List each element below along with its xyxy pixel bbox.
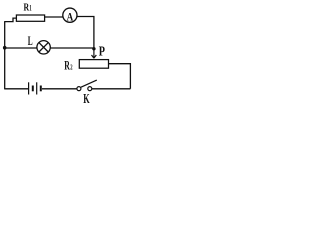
switch K (77, 80, 97, 91)
svg-text:2: 2 (70, 62, 72, 71)
node: wiper junction (92, 47, 95, 50)
wire: ammeter right, corner down to node P (77, 17, 94, 48)
svg-text:K: K (83, 92, 89, 106)
wire: lamp to node P (50, 47, 94, 49)
svg-text:1: 1 (29, 4, 31, 13)
wire: R1 to ammeter (45, 16, 64, 18)
wire: top-left jog to R1 (4, 18, 16, 22)
wire: R2 to right rail and down (109, 64, 131, 89)
rheostat R2 (79, 60, 108, 69)
lamp L (37, 41, 50, 54)
battery B1 (29, 82, 41, 94)
wire: bottom right to switch (92, 88, 130, 90)
wire: left rail (4, 22, 6, 89)
wire: switch to battery (42, 88, 77, 90)
wiper arrow of R2 (92, 49, 97, 58)
label R1 (24, 1, 32, 13)
node: junction on left rail (3, 46, 7, 50)
ammeter A (63, 8, 77, 24)
wire: left rail to lamp (5, 47, 38, 49)
wire: battery to left rail (4, 88, 28, 90)
svg-text:A: A (67, 12, 74, 24)
svg-text:P: P (99, 45, 106, 60)
svg-text:L: L (28, 33, 33, 48)
label R2 (64, 57, 72, 72)
resistor R1 (16, 15, 44, 21)
